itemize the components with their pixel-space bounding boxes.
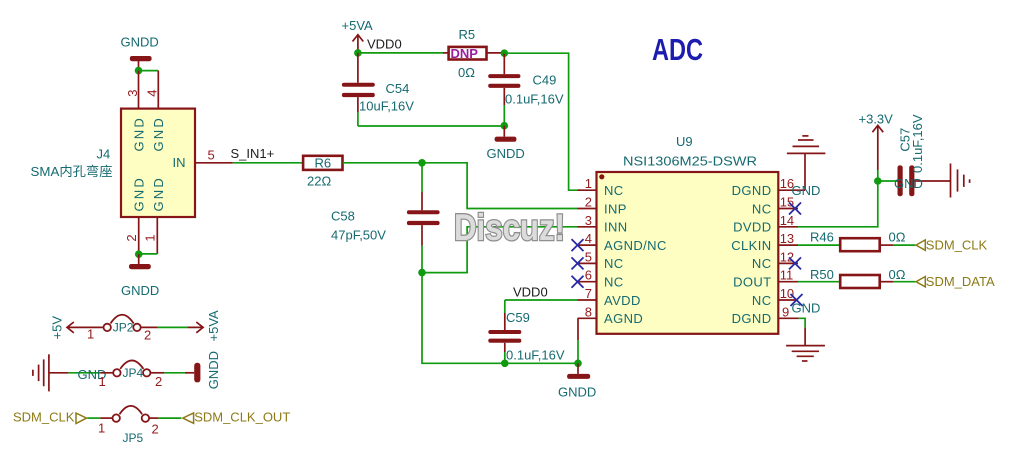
wire JP2 pin2 stub	[141, 326, 158, 328]
svg-text:INN: INN	[604, 220, 628, 235]
wire node to C57	[878, 180, 898, 182]
svg-text:DVDD: DVDD	[733, 220, 771, 235]
svg-text:3: 3	[125, 89, 140, 96]
svg-text:Discuz!: Discuz!	[454, 207, 565, 248]
global label SDM_DATA	[916, 274, 995, 289]
svg-text:13: 13	[780, 231, 794, 246]
junction (J4 bottom pins)	[135, 250, 143, 258]
svg-text:1: 1	[585, 176, 592, 191]
svg-text:GNDD: GNDD	[121, 283, 159, 298]
svg-text:IN: IN	[173, 155, 186, 170]
ground GNDD (top of J4)	[121, 35, 159, 71]
svg-text:GNDD: GNDD	[121, 35, 159, 50]
svg-text:GNDD: GNDD	[487, 146, 525, 161]
wire (J4 pin 3 stub)	[138, 71, 140, 109]
capacitor C49	[488, 53, 564, 126]
svg-text:S_IN1+: S_IN1+	[231, 146, 275, 161]
svg-text:47pF,50V: 47pF,50V	[331, 228, 386, 243]
svg-text:SDM_CLK_OUT: SDM_CLK_OUT	[194, 409, 290, 424]
svg-text:1: 1	[99, 374, 106, 389]
svg-text:NC: NC	[604, 183, 624, 198]
svg-text:11: 11	[780, 268, 794, 283]
svg-text:2: 2	[155, 374, 162, 389]
svg-text:0.1uF,16V: 0.1uF,16V	[910, 114, 925, 173]
resistor R50	[810, 267, 906, 288]
wire (J4 pin 1 stub)	[156, 217, 158, 254]
svg-text:4: 4	[585, 231, 592, 246]
capacitor C54	[342, 53, 414, 126]
jumper JP2	[87, 315, 151, 343]
svg-text:6: 6	[585, 268, 592, 283]
wire (R5 left stub)	[443, 52, 449, 54]
svg-text:0Ω: 0Ω	[889, 267, 906, 282]
svg-text:AGND/NC: AGND/NC	[604, 238, 667, 253]
svg-text:4: 4	[145, 89, 160, 96]
svg-text:+5VA: +5VA	[342, 18, 374, 33]
U9 right pin numbers 16-9	[780, 176, 794, 319]
svg-text:DNP: DNP	[451, 46, 479, 61]
wire R50 to SDM_DATA	[880, 281, 916, 283]
wire (J4 pin 4 stub)	[157, 71, 159, 109]
ground GNDD (below C49)	[487, 126, 525, 161]
svg-text:2: 2	[144, 328, 151, 343]
wire (J4 pin4 to junction)	[139, 70, 159, 72]
resistor R5	[449, 27, 487, 80]
svg-text:14: 14	[780, 213, 794, 228]
no-connect X pin4	[572, 239, 584, 251]
wire R5 node to U9 pin1	[504, 53, 581, 190]
wire JP5 pin2 stub	[149, 417, 158, 419]
svg-text:R50: R50	[810, 267, 834, 282]
U9 left pin numbers 1-8	[585, 176, 592, 319]
wire R6 to node	[343, 162, 423, 164]
svg-text:10uF,16V: 10uF,16V	[359, 99, 414, 114]
resistor R6	[303, 156, 342, 189]
wire (J4 pin 2 stub)	[138, 217, 140, 254]
junction (AGND / rail)	[574, 360, 582, 368]
capacitor C57 (rotated)	[898, 114, 925, 196]
wire JP4 to GNDD	[164, 372, 185, 374]
wire C54 bottom to C49 bottom	[358, 125, 504, 127]
connector J4 body	[121, 109, 195, 217]
svg-text:0.1uF,16V: 0.1uF,16V	[506, 348, 565, 363]
no-connect X pin5	[572, 257, 584, 269]
svg-text:2: 2	[585, 195, 592, 210]
ground GND (below pin9)	[786, 301, 825, 362]
svg-text:GND: GND	[792, 301, 821, 316]
svg-text:DGND: DGND	[732, 311, 772, 326]
IC U9 body	[597, 134, 779, 334]
wire (J4 pin5 stub)	[195, 162, 233, 164]
svg-text:1: 1	[142, 234, 157, 241]
wire ground rail to AGND drop	[505, 362, 578, 364]
junction (C59 bottom)	[501, 360, 509, 368]
svg-text:GND: GND	[131, 116, 146, 152]
wire JP5 pin1 stub	[100, 417, 112, 419]
svg-text:SDM_CLK: SDM_CLK	[13, 409, 75, 424]
svg-text:22Ω: 22Ω	[307, 174, 331, 189]
svg-text:NC: NC	[604, 275, 624, 290]
svg-text:1: 1	[98, 421, 105, 436]
junction (C58 bottom)	[418, 269, 426, 277]
wire R46 to SDM_CLK	[880, 244, 916, 246]
svg-text:CLKIN: CLKIN	[731, 238, 771, 253]
svg-text:AGND: AGND	[604, 311, 643, 326]
junction (+3.3V / C57)	[874, 177, 882, 185]
U9 left pin names	[604, 183, 667, 326]
svg-text:DGND: DGND	[732, 183, 772, 198]
svg-text:12: 12	[780, 249, 794, 264]
svg-text:R6: R6	[315, 156, 332, 171]
svg-text:SDM_DATA: SDM_DATA	[926, 274, 995, 289]
svg-text:8: 8	[585, 304, 592, 319]
svg-text:GND: GND	[131, 176, 146, 212]
power +5V (JP2 left)	[50, 316, 104, 340]
svg-text:+3.3V: +3.3V	[859, 112, 894, 127]
wire DVDD (pin14) to +3.3V node	[798, 181, 878, 227]
svg-text:C59: C59	[506, 310, 530, 325]
wire C58 bottom to ground rail	[422, 273, 505, 364]
svg-text:NC: NC	[604, 256, 624, 271]
ground GNDD (below U9)	[558, 363, 596, 399]
no-connect X pin15	[789, 203, 801, 215]
svg-text:10: 10	[780, 286, 794, 301]
U9 right pin names	[731, 183, 771, 326]
svg-text:INP: INP	[604, 201, 627, 216]
power +5VA	[342, 18, 374, 53]
svg-text:GND: GND	[151, 116, 166, 152]
jumper JP4	[99, 360, 163, 389]
U9 right pin stubs	[778, 190, 805, 318]
ground GND (right of C57)	[894, 164, 970, 198]
svg-text:SMA内孔弯座: SMA内孔弯座	[31, 164, 113, 179]
no-connect X pin10	[791, 294, 803, 306]
ground GNDD (JP4 right, rotated bar)	[185, 351, 221, 389]
svg-text:JP5: JP5	[123, 431, 144, 445]
svg-text:R5: R5	[459, 27, 476, 42]
wire S_IN1+ to R6	[233, 162, 303, 164]
junction (J4 top pins)	[135, 67, 143, 75]
wire AGND (pin8) down	[577, 318, 579, 363]
svg-text:0.1uF,16V: 0.1uF,16V	[505, 92, 564, 107]
svg-text:NC: NC	[752, 293, 772, 308]
svg-text:C49: C49	[533, 73, 557, 88]
ground GNDD (bottom of J4)	[121, 254, 159, 298]
svg-text:C58: C58	[331, 208, 355, 223]
svg-text:9: 9	[782, 304, 789, 319]
wire (pin1 to junction)	[139, 253, 158, 255]
svg-text:GND: GND	[792, 183, 821, 198]
svg-text:2: 2	[124, 234, 139, 241]
no-connect X pin6	[572, 276, 584, 288]
wire JP4 pin2 stub	[150, 372, 164, 374]
global label SDM_CLK (JP5 left)	[13, 409, 87, 424]
svg-text:5: 5	[585, 249, 592, 264]
capacitor C59	[488, 300, 565, 363]
global label SDM_CLK	[916, 237, 988, 252]
svg-text:2: 2	[152, 422, 159, 437]
svg-text:0Ω: 0Ω	[458, 65, 475, 80]
svg-text:NC: NC	[752, 256, 772, 271]
wire (R5 right stub)	[487, 52, 505, 54]
svg-text:JP2: JP2	[113, 321, 134, 335]
ground GND (above pin16)	[787, 136, 826, 198]
svg-text:U9: U9	[676, 134, 693, 149]
junction (R5 / C49)	[501, 49, 509, 57]
junction (+5VA node)	[354, 49, 362, 57]
wire SDM_CLK to JP5 pin1	[87, 417, 100, 419]
wire node to INN (pin3)	[422, 227, 578, 273]
svg-text:VDD0: VDD0	[513, 285, 548, 300]
svg-text:VDD0: VDD0	[367, 37, 402, 52]
wire +5VA to R5	[358, 52, 443, 54]
U9 left pin stubs	[578, 190, 597, 318]
svg-text:DOUT: DOUT	[733, 275, 771, 290]
svg-text:JP4: JP4	[123, 366, 144, 380]
wire C57 to GND	[914, 180, 951, 182]
capacitor C58	[331, 163, 440, 273]
wire node to INP (pin2)	[422, 163, 578, 209]
svg-text:AVDD: AVDD	[604, 293, 641, 308]
no-connect X pin12	[789, 257, 801, 269]
svg-text:GNDD: GNDD	[558, 385, 596, 400]
wire JP5 to SDM_CLK_OUT	[158, 417, 181, 419]
svg-text:NSI1306M25-DSWR: NSI1306M25-DSWR	[623, 154, 757, 169]
svg-text:GND: GND	[894, 176, 923, 191]
wire VDD0 to AVDD (pin7)	[505, 299, 578, 301]
global label SDM_CLK_OUT	[183, 409, 291, 424]
ground GND (JP4 left, rotated)	[33, 354, 69, 391]
svg-text:+5VA: +5VA	[206, 310, 221, 342]
svg-text:J4: J4	[97, 147, 111, 162]
junction (C49 bottom)	[501, 122, 509, 130]
wire JP4 pin1 stub	[100, 372, 113, 374]
jumper JP5	[98, 406, 159, 445]
svg-text:ADC: ADC	[652, 32, 703, 67]
svg-text:NC: NC	[752, 201, 772, 216]
svg-text:5: 5	[208, 148, 215, 163]
svg-text:GNDD: GNDD	[206, 351, 221, 389]
svg-text:3: 3	[585, 213, 592, 228]
wire DOUT (pin11) to R50	[798, 281, 840, 283]
svg-text:1: 1	[87, 327, 94, 342]
svg-text:R46: R46	[810, 230, 834, 245]
power +5VA (JP2 right)	[187, 310, 221, 342]
wire JP2 to +5VA	[158, 326, 188, 328]
svg-text:0Ω: 0Ω	[889, 230, 906, 245]
junction (R6 / C58 top)	[418, 159, 426, 167]
svg-text:SDM_CLK: SDM_CLK	[926, 237, 988, 252]
svg-text:GND: GND	[151, 176, 166, 212]
wire GND to JP4 pin1	[68, 372, 100, 374]
wire CLKIN (pin13) to R46	[798, 244, 840, 246]
power +3.3V	[859, 112, 894, 182]
svg-text:7: 7	[585, 286, 592, 301]
svg-text:C54: C54	[386, 81, 410, 96]
resistor R46	[810, 230, 906, 252]
svg-text:+5V: +5V	[50, 316, 65, 340]
